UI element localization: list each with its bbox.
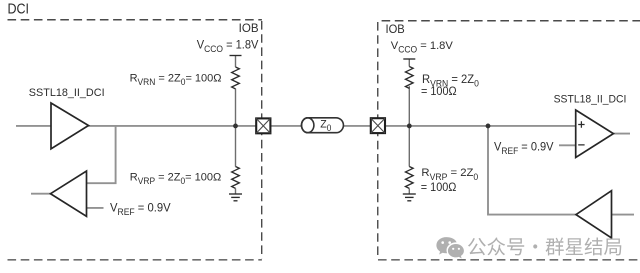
svg-text:SSTL18_II_DCI: SSTL18_II_DCI bbox=[554, 93, 627, 106]
svg-text:= 100Ω: = 100Ω bbox=[421, 182, 457, 194]
svg-text:IOB: IOB bbox=[239, 23, 259, 35]
svg-text:IOB: IOB bbox=[385, 24, 404, 36]
svg-text:SSTL18_II_DCI: SSTL18_II_DCI bbox=[29, 87, 105, 99]
svg-text:DCI: DCI bbox=[7, 1, 29, 17]
svg-text:= 100Ω: = 100Ω bbox=[421, 86, 457, 98]
